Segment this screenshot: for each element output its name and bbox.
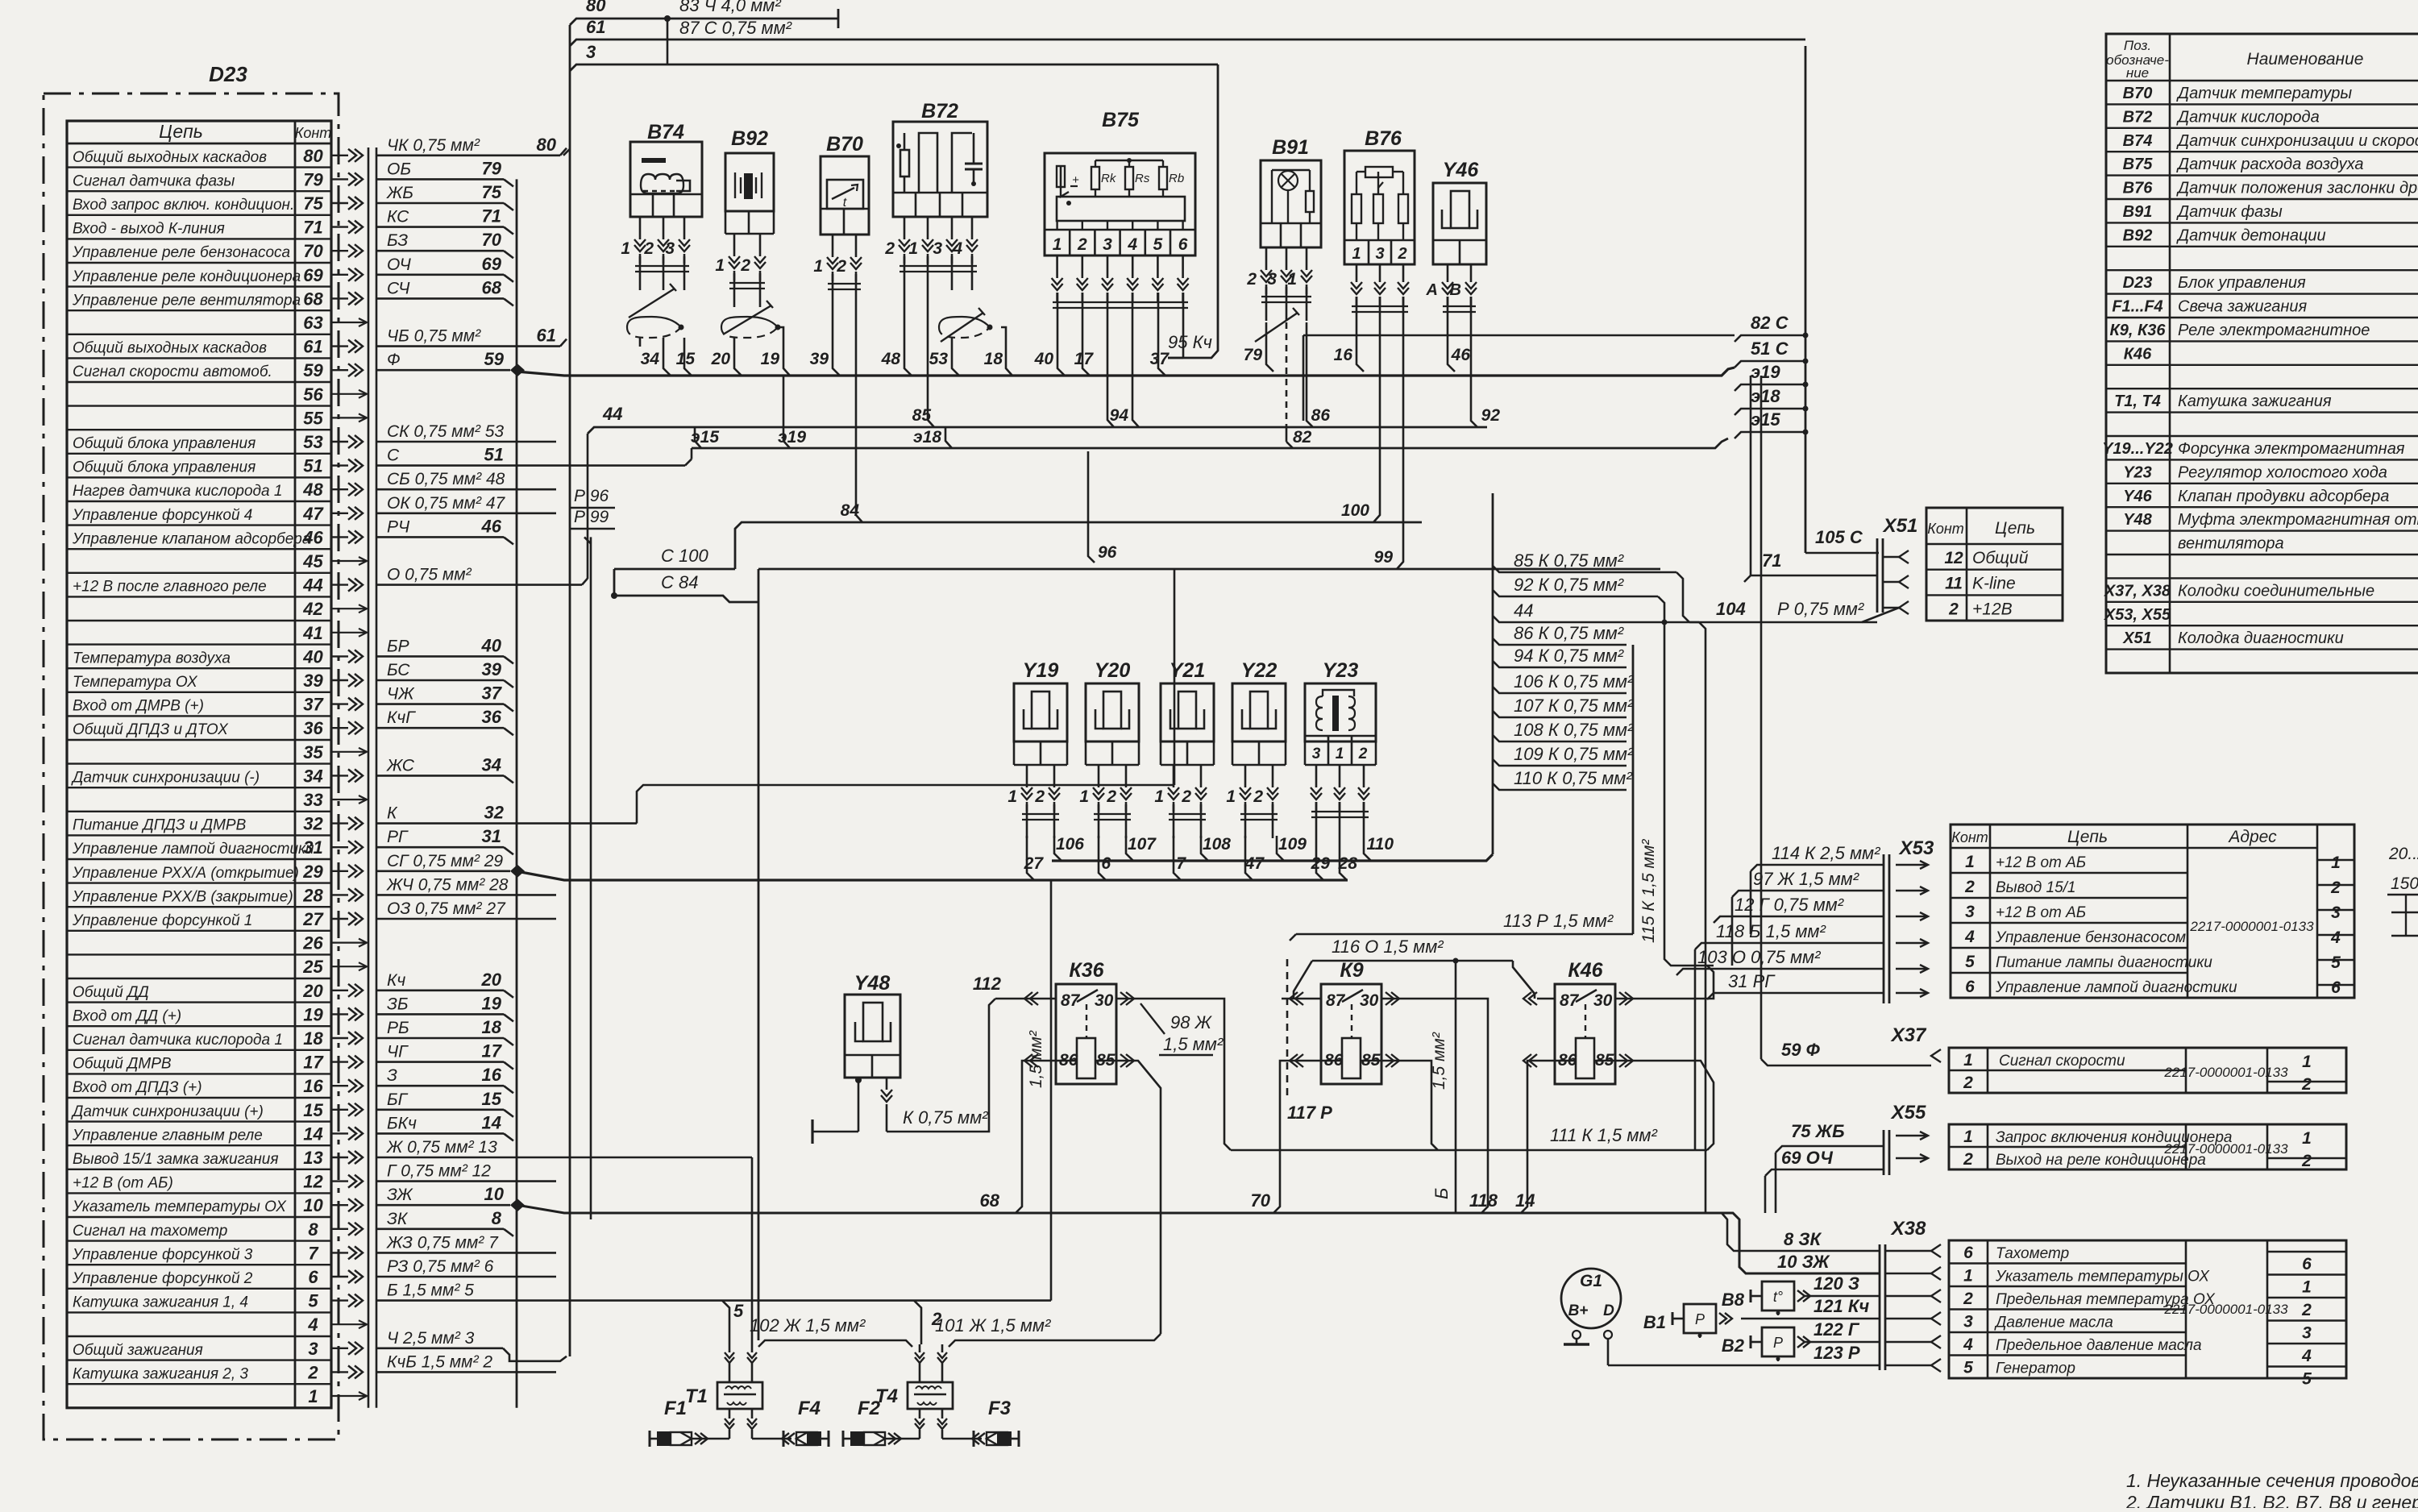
sensor B91 hall symbol [1278, 171, 1298, 190]
svg-text:6: 6 [2302, 1255, 2312, 1273]
svg-text:61: 61 [537, 326, 556, 346]
svg-text:Вход от ДД (+): Вход от ДД (+) [73, 1007, 181, 1024]
svg-text:ЖЗ 0,75 мм² 7: ЖЗ 0,75 мм² 7 [386, 1233, 499, 1252]
wire 80 ЧК [376, 155, 560, 157]
sensor B92 shield [721, 317, 778, 327]
sensor B75 resistor Rs [1125, 167, 1133, 189]
svg-text:39: 39 [810, 350, 829, 368]
svg-text:37: 37 [482, 683, 503, 704]
svg-text:16: 16 [482, 1065, 502, 1085]
wire 59F vertical [1760, 376, 1763, 1059]
injector Y19 coil symbol [1032, 692, 1049, 729]
svg-text:1: 1 [715, 256, 725, 275]
ignition coil Т4 primary pins [919, 1362, 921, 1382]
svg-text:БР: БР [387, 637, 409, 655]
sensor B76 connector cells [1344, 239, 1415, 242]
wire 107 fan [1493, 711, 1627, 717]
valve Y46 box [1433, 183, 1486, 264]
svg-text:В+: В+ [1568, 1302, 1589, 1319]
svg-text:Управление РХХ/А (открытие): Управление РХХ/А (открытие) [72, 865, 299, 882]
svg-text:7: 7 [1176, 854, 1186, 873]
svg-text:1,5 мм²: 1,5 мм² [1027, 1030, 1045, 1088]
wire 114 to X53 [1751, 865, 1884, 871]
svg-text:1: 1 [1336, 746, 1344, 762]
svg-text:Адрес: Адрес [2227, 828, 2277, 846]
svg-text:3: 3 [2302, 1324, 2312, 1343]
svg-text:3: 3 [1963, 1313, 1973, 1331]
relay К9 box [1321, 984, 1381, 1084]
idle regulator Y23 box [1305, 683, 1376, 741]
wire 19 shield to bus [778, 327, 790, 376]
wire 13 drop to T1 [751, 1157, 754, 1344]
risers for X53 wires [1750, 871, 1752, 934]
svg-text:B72: B72 [2123, 108, 2153, 126]
component row 20 [2106, 577, 2418, 579]
svg-text:В8: В8 [1722, 1290, 1745, 1310]
svg-text:79: 79 [1244, 346, 1263, 364]
svg-text:Х55: Х55 [1890, 1102, 1926, 1124]
sensor B74 shield [627, 317, 681, 327]
wire e18 to e-bus [945, 427, 952, 448]
wire 59 Ф [376, 369, 510, 372]
svg-text:4: 4 [2330, 928, 2341, 947]
wire 79 ОБ [376, 178, 504, 181]
svg-text:5: 5 [1963, 1359, 1973, 1377]
svg-text:Датчик синхронизации (-): Датчик синхронизации (-) [71, 769, 260, 786]
svg-text:БЗ: БЗ [387, 231, 408, 250]
svg-text:8: 8 [492, 1208, 502, 1228]
wire 100 from B76 pin3 [1373, 330, 1380, 522]
svg-text:101 Ж 1,5 мм²: 101 Ж 1,5 мм² [935, 1315, 1051, 1335]
injector Y21 connector cells [1161, 741, 1214, 743]
svg-text:16: 16 [303, 1076, 323, 1096]
svg-text:28: 28 [302, 885, 323, 905]
wire 82 jumper [1286, 427, 1288, 442]
svg-text:2: 2 [1963, 1150, 1973, 1169]
svg-text:1: 1 [2302, 1053, 2312, 1071]
svg-text:Rs: Rs [1135, 172, 1150, 185]
svg-text:Управление главным реле: Управление главным реле [72, 1127, 263, 1144]
svg-text:61: 61 [586, 17, 605, 37]
svg-text:97 Ж 1,5 мм²: 97 Ж 1,5 мм² [1753, 869, 1859, 889]
svg-text:2: 2 [1963, 1074, 1973, 1092]
svg-text:46: 46 [1451, 346, 1471, 364]
svg-text:115 К 1,5 мм²: 115 К 1,5 мм² [1639, 839, 1658, 943]
svg-text:1: 1 [1965, 853, 1975, 871]
svg-text:Поз.: Поз. [2124, 38, 2151, 53]
svg-text:Вход от ДМРВ (+): Вход от ДМРВ (+) [73, 698, 204, 715]
relay К36 coil [1077, 1038, 1095, 1078]
wire 98 from K36-30 [1134, 999, 1231, 1150]
svg-text:15: 15 [482, 1089, 502, 1109]
svg-text:БКч: БКч [387, 1114, 417, 1132]
wire 98 label flag [1140, 1003, 1165, 1034]
svg-text:2: 2 [1397, 245, 1406, 263]
bottom trunk bus [517, 1205, 1880, 1273]
svg-text:Конт: Конт [295, 125, 332, 141]
svg-text:10: 10 [484, 1184, 505, 1204]
svg-text:68: 68 [980, 1190, 1000, 1211]
wire 85 fan [1493, 566, 1676, 572]
svg-text:111 К 1,5 мм²: 111 К 1,5 мм² [1550, 1125, 1657, 1145]
svg-text:40: 40 [302, 646, 323, 667]
relay К36 pin 30 wire [1116, 998, 1134, 1000]
wire 110 drop [1364, 836, 1371, 861]
wire 37 to bus [1158, 326, 1165, 376]
svg-text:Тахометр: Тахометр [1996, 1245, 2069, 1262]
svg-text:ЗБ: ЗБ [387, 995, 409, 1013]
D23 pin table frame [67, 121, 331, 1408]
sensor B75 box [1045, 153, 1195, 255]
svg-text:17: 17 [482, 1041, 503, 1061]
X38 arrows [1931, 1244, 1941, 1257]
sensor B75 trim resistor [1060, 166, 1062, 187]
svg-text:Колодки соединительные: Колодки соединительные [2178, 582, 2374, 600]
svg-text:114 К 2,5 мм²: 114 К 2,5 мм² [1772, 843, 1880, 863]
vertical x733 [590, 537, 592, 1219]
svg-text:106 К 0,75 мм²: 106 К 0,75 мм² [1514, 671, 1634, 692]
svg-text:ОЗ 0,75 мм² 27: ОЗ 0,75 мм² 27 [387, 899, 506, 918]
wire 46 РЧ [376, 536, 504, 538]
wire 102 Ж [758, 1340, 912, 1347]
stub э19 [1735, 384, 1805, 391]
harness bundle double line [368, 147, 370, 1408]
svg-text:28: 28 [1338, 854, 1358, 873]
svg-text:э15: э15 [1751, 409, 1780, 430]
wire 31 to X53 [1707, 993, 1884, 999]
svg-text:Управление форсункой 2: Управление форсункой 2 [72, 1270, 253, 1287]
svg-text:92: 92 [1481, 406, 1501, 425]
wire 108 drop [1201, 836, 1208, 861]
e-bus ground [692, 438, 1728, 448]
wire K46-86 to bus 14 [1521, 1061, 1537, 1213]
wire 34 ЖС [376, 775, 504, 777]
svg-text:55: 55 [303, 408, 323, 428]
wire 94 from B75 pin4 [1132, 326, 1139, 427]
svg-text:Колодка диагностики: Колодка диагностики [2178, 629, 2344, 647]
svg-text:Y23: Y23 [1323, 659, 1359, 682]
injector Y19 connector cells [1014, 741, 1067, 743]
svg-text:1. Неуказанные сечения проводо: 1. Неуказанные сечения проводов низко [2126, 1470, 2418, 1491]
svg-text:В: В [1450, 281, 1461, 299]
svg-text:51: 51 [303, 456, 322, 476]
svg-text:Управление бензонасосом: Управление бензонасосом [1995, 929, 2186, 946]
svg-text:29: 29 [1311, 854, 1331, 873]
relay К36 dashed link [1086, 1004, 1087, 1038]
sensor B75 pins [1056, 255, 1058, 278]
svg-text:B75: B75 [2123, 156, 2154, 173]
svg-text:2217-0000001-0133: 2217-0000001-0133 [2163, 1141, 2288, 1157]
svg-text:Вход запрос включ. кондицион.: Вход запрос включ. кондицион. [73, 197, 294, 214]
wire 5 drop to T1 [722, 1301, 729, 1344]
svg-text:1: 1 [2302, 1278, 2312, 1297]
svg-text:106: 106 [1056, 835, 1084, 854]
relay К46 dashed link [1585, 1004, 1586, 1038]
svg-text:э19: э19 [778, 428, 806, 447]
svg-text:К46: К46 [2124, 345, 2152, 363]
svg-text:68: 68 [303, 289, 323, 309]
clutch Y48 inner symbol [863, 1003, 883, 1041]
svg-text:Y20: Y20 [1095, 659, 1131, 682]
wire 47 drop [1245, 836, 1253, 880]
sensor B74 coil [641, 174, 683, 193]
svg-text:41: 41 [302, 623, 322, 643]
injector Y22 pins [1244, 765, 1247, 787]
relay К46 pin 30 wire [1615, 998, 1633, 1000]
sensor B92 box [725, 153, 774, 211]
wire 44 О [376, 584, 582, 586]
svg-text:69: 69 [482, 254, 502, 274]
svg-text:э18: э18 [1751, 386, 1780, 406]
svg-text:3: 3 [933, 239, 942, 258]
svg-text:Р 0,75 мм²: Р 0,75 мм² [1777, 599, 1864, 619]
svg-text:51: 51 [484, 445, 504, 465]
svg-text:16: 16 [1334, 346, 1353, 364]
bus 44 feed [588, 427, 1487, 434]
svg-text:47: 47 [302, 504, 324, 524]
svg-text:94 К 0,75 мм²: 94 К 0,75 мм² [1514, 646, 1624, 666]
vertical x941 down to coil bus [758, 569, 760, 1340]
svg-text:Р: Р [1695, 1311, 1705, 1327]
svg-text:B92: B92 [2123, 226, 2153, 244]
X51 pin arrows [1899, 550, 1909, 563]
svg-text:Управление реле вентилятора: Управление реле вентилятора [72, 292, 301, 309]
right vertical trunk [1805, 46, 1807, 553]
svg-text:20: 20 [711, 350, 731, 368]
svg-text:32: 32 [303, 814, 323, 834]
wire 122 Г [1804, 1341, 1880, 1344]
svg-text:80: 80 [303, 146, 323, 166]
wire 18 РБ [376, 1037, 504, 1040]
relay К46 pin 85 wire [1594, 1060, 1633, 1062]
wire 116 into K9-87 [1294, 961, 1312, 999]
svg-text:Реле электромагнитное: Реле электромагнитное [2178, 322, 2370, 339]
svg-text:11: 11 [1945, 575, 1963, 593]
sensor B74 twisted pair mark [629, 289, 675, 318]
wire e15 to e-bus [695, 427, 701, 448]
svg-text:6: 6 [1101, 854, 1111, 873]
X38 double bar [1879, 1244, 1881, 1370]
svg-text:79: 79 [482, 158, 502, 178]
relay К36 box [1056, 984, 1116, 1084]
svg-text:ОЧ: ОЧ [387, 255, 412, 274]
svg-text:19: 19 [482, 993, 502, 1013]
svg-text:Y48: Y48 [2123, 511, 2152, 529]
svg-text:1,5 мм²: 1,5 мм² [1430, 1032, 1448, 1090]
wire 123 Р [1608, 1365, 1880, 1367]
wire 104 P line [1689, 621, 1877, 624]
wire K9-85 down [1399, 1061, 1438, 1150]
wire 40 to bus [1057, 326, 1065, 376]
wire 106 drop [1054, 836, 1062, 861]
svg-text:116 О 1,5 мм²: 116 О 1,5 мм² [1332, 937, 1444, 957]
wire 48 to bus [904, 290, 912, 376]
svg-text:Муфта электромагнитная отключе: Муфта электромагнитная отключения [2178, 511, 2418, 529]
wire 92 fan [1493, 590, 1658, 596]
svg-text:85 К 0,75 мм²: 85 К 0,75 мм² [1514, 550, 1624, 571]
sensor B92 twisted pair mark [723, 305, 771, 334]
svg-text:СК 0,75 мм² 53: СК 0,75 мм² 53 [387, 422, 504, 441]
svg-text:4: 4 [952, 239, 962, 258]
svg-text:С: С [387, 447, 400, 465]
sensor B74 connector cells [630, 193, 702, 196]
svg-text:110 К 0,75 мм²: 110 К 0,75 мм² [1514, 768, 1632, 788]
svg-text:Общий: Общий [1972, 549, 2029, 567]
svg-text:29: 29 [302, 862, 323, 882]
svg-text:Нагрев датчика кислорода 1: Нагрев датчика кислорода 1 [73, 483, 282, 500]
svg-text:Кч: Кч [387, 971, 405, 990]
svg-text:Y21: Y21 [1170, 659, 1205, 682]
svg-text:107 К 0,75 мм²: 107 К 0,75 мм² [1514, 696, 1634, 716]
svg-text:4: 4 [307, 1315, 318, 1335]
wire 16 to bus [1356, 330, 1364, 372]
svg-text:Вывод 15/1: Вывод 15/1 [1996, 879, 2075, 896]
svg-text:48: 48 [302, 480, 323, 500]
svg-text:РБ: РБ [387, 1019, 409, 1037]
wire K46-30 riser [1633, 966, 1714, 999]
svg-text:59: 59 [303, 360, 323, 380]
svg-text:5: 5 [308, 1291, 318, 1311]
wire 116 diagonal to K46-87 [1513, 961, 1535, 999]
wire 36 КчГ [376, 727, 504, 729]
svg-text:80: 80 [586, 0, 606, 15]
svg-text:К36: К36 [1069, 959, 1104, 982]
svg-text:Б: Б [1431, 1188, 1452, 1199]
svg-text:122 Г: 122 Г [1813, 1319, 1860, 1340]
svg-text:37: 37 [303, 695, 324, 715]
svg-text:Управление клапаном адсорбера: Управление клапаном адсорбера [72, 530, 310, 547]
svg-text:2: 2 [307, 1362, 318, 1382]
sensor B74 pins [639, 217, 642, 239]
wire 92 from Y46 pin B [1471, 330, 1477, 427]
svg-text:ОБ: ОБ [387, 160, 411, 178]
fan-out vertical [1492, 493, 1494, 854]
svg-text:70: 70 [482, 230, 502, 250]
wire 85 from B72 pin1 [928, 290, 934, 427]
wire 27 drop [1027, 836, 1034, 880]
svg-text:2: 2 [1106, 787, 1116, 806]
generator G1 [1561, 1269, 1621, 1328]
wire 17 ЧГ [376, 1061, 504, 1063]
riser 32 step [637, 785, 1174, 824]
svg-text:75 ЖБ: 75 ЖБ [1791, 1121, 1845, 1141]
svg-text:Наименование: Наименование [2247, 50, 2364, 69]
svg-text:6: 6 [1965, 978, 1975, 996]
svg-text:Клапан продувки адсорбера: Клапан продувки адсорбера [2178, 488, 2389, 505]
svg-text:113 Р 1,5 мм²: 113 Р 1,5 мм² [1503, 911, 1614, 931]
relay К46 pin 86 wire [1537, 1060, 1576, 1062]
wire 86 fan [1493, 638, 1627, 645]
svg-text:Ч 2,5 мм² 3: Ч 2,5 мм² 3 [387, 1329, 475, 1348]
svg-text:Y23: Y23 [2123, 463, 2152, 481]
svg-text:Управление форсункой 3: Управление форсункой 3 [72, 1246, 253, 1263]
sensor B91 resistor [1288, 169, 1310, 171]
relay К36 pin 86 wire [1038, 1060, 1077, 1062]
svg-text:86 К 0,75 мм²: 86 К 0,75 мм² [1514, 623, 1624, 643]
svg-text:1: 1 [1352, 245, 1361, 263]
wire 28 drop [1340, 836, 1347, 880]
svg-text:Р 96: Р 96 [574, 487, 609, 505]
svg-text:В74: В74 [647, 121, 684, 143]
svg-text:Х37, Х38: Х37, Х38 [2104, 582, 2171, 600]
svg-text:1: 1 [2302, 1129, 2312, 1148]
svg-text:Управление лампой диагностики: Управление лампой диагностики [72, 841, 314, 858]
svg-text:ЖБ: ЖБ [386, 184, 413, 202]
svg-text:3: 3 [1267, 270, 1277, 289]
wire 28 ЖЧ [376, 894, 556, 896]
svg-text:Х51: Х51 [2122, 629, 2152, 647]
svg-text:104: 104 [1716, 599, 1746, 619]
svg-text:ЧБ 0,75 мм²: ЧБ 0,75 мм² [387, 327, 481, 346]
sensor B92 connector cells [725, 210, 774, 213]
wire 116 O line [1312, 960, 1513, 962]
wire 116 branch vertical [1453, 958, 1459, 964]
svg-text:70: 70 [303, 241, 323, 261]
svg-text:СЧ: СЧ [387, 279, 410, 297]
svg-text:2: 2 [1358, 746, 1368, 762]
wire 79 to bus [1266, 322, 1273, 372]
svg-text:17: 17 [1074, 350, 1095, 368]
svg-text:РЗ 0,75 мм² 6: РЗ 0,75 мм² 6 [387, 1257, 494, 1276]
svg-text:э15: э15 [691, 428, 719, 447]
X51 double bar [1876, 538, 1879, 613]
wire 16 З [376, 1085, 504, 1087]
svg-text:27: 27 [1024, 854, 1045, 873]
svg-text:Датчик кислорода: Датчик кислорода [2176, 108, 2320, 126]
svg-text:102 Ж 1,5 мм²: 102 Ж 1,5 мм² [750, 1315, 866, 1335]
svg-text:Т1: Т1 [685, 1385, 708, 1407]
relay К9 pin 30 wire [1381, 998, 1399, 1000]
wire 97 to X53 [1732, 891, 1884, 897]
svg-text:Питание лампы диагностики: Питание лампы диагностики [1996, 954, 2212, 971]
svg-text:К9: К9 [1340, 959, 1363, 982]
svg-text:Предельное давление масла: Предельное давление масла [1996, 1337, 2202, 1354]
wire 109 fan [1493, 759, 1627, 766]
svg-text:Х37: Х37 [1890, 1024, 1927, 1046]
svg-text:Y19...Y22: Y19...Y22 [2102, 440, 2173, 458]
svg-text:t°: t° [1773, 1289, 1783, 1305]
svg-text:Общий выходных каскадов: Общий выходных каскадов [73, 149, 267, 166]
svg-text:3: 3 [665, 239, 675, 258]
wire С 84 [614, 596, 758, 602]
wire 95 Кч vertical [1168, 64, 1218, 358]
svg-text:КчБ 1,5 мм² 2: КчБ 1,5 мм² 2 [387, 1352, 492, 1371]
svg-text:F4: F4 [798, 1398, 821, 1419]
svg-text:Общий блока управления: Общий блока управления [73, 459, 256, 476]
svg-text:14: 14 [482, 1112, 501, 1132]
svg-text:Регулятор холостого хода: Регулятор холостого хода [2178, 463, 2387, 481]
stub 51 С [1735, 361, 1805, 368]
svg-text:85: 85 [912, 406, 932, 425]
svg-text:84: 84 [841, 501, 860, 520]
svg-text:Управление лампой диагностики: Управление лампой диагностики [1995, 979, 2237, 996]
wire 7 drop [1174, 836, 1181, 880]
branch to 8 ZK [1722, 1213, 1880, 1251]
stub 82 С [1735, 335, 1805, 342]
svg-text:5: 5 [2302, 1370, 2312, 1389]
injector Y21 coil symbol [1178, 692, 1196, 729]
sensor B72 twisted pair mark [941, 313, 983, 342]
wire 7 ЖЗ [376, 1252, 556, 1254]
component row 14 [2106, 435, 2418, 437]
svg-text:1: 1 [1079, 787, 1089, 806]
svg-text:Т1, Т4: Т1, Т4 [2114, 393, 2161, 410]
clutch Y48 left pin [858, 1078, 860, 1132]
connector X38 table [1949, 1240, 2346, 1378]
svg-text:КчГ: КчГ [387, 708, 416, 727]
svg-text:36: 36 [482, 707, 502, 727]
svg-text:63: 63 [303, 313, 322, 333]
